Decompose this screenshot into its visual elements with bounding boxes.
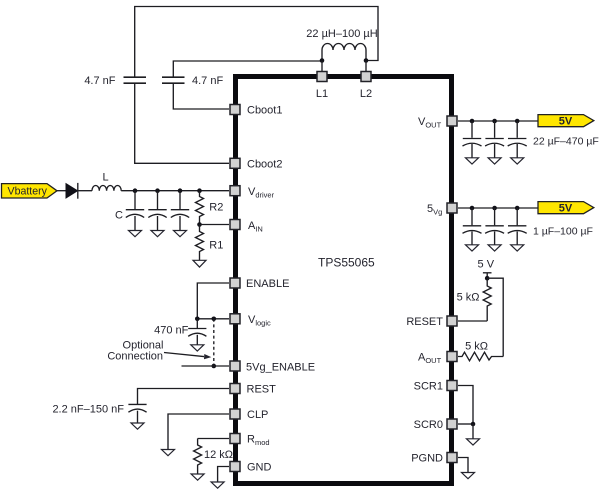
svg-text:R1: R1	[209, 240, 223, 252]
pin REST	[230, 384, 240, 394]
5V supply rail bar	[483, 272, 492, 274]
resistor R1	[196, 225, 204, 261]
svg-text:L2: L2	[360, 88, 372, 100]
ground (C bank 3)	[174, 231, 187, 237]
ground (SCR)	[467, 439, 480, 445]
node: 5Vg junction 1	[470, 206, 475, 211]
pin 5Vg	[447, 203, 457, 213]
wire: CLP pin to ground	[168, 414, 229, 450]
wire: ENABLE pin loop to Vlogic	[197, 283, 229, 319]
svg-text:REST: REST	[247, 384, 277, 396]
wire: junction to AIN pin	[200, 224, 230, 226]
node: SCR junction	[471, 422, 476, 427]
5V output flag (VOUT)	[538, 115, 594, 128]
svg-text:L: L	[102, 172, 108, 184]
svg-text:SCR0: SCR0	[414, 419, 443, 431]
wire: 4.7nF C1 top to L2 junction (top loop)	[135, 7, 378, 78]
ground (5Vg cap 3)	[511, 245, 524, 251]
ground (GND)	[211, 482, 224, 488]
node: Vlogic junction B	[212, 317, 217, 322]
wire: SCR junction to ground	[472, 424, 474, 439]
resistor 12k	[194, 439, 202, 475]
pin VOUT	[447, 116, 457, 126]
wire: 5Vg rail	[458, 207, 538, 209]
ground (VOUT cap 1)	[466, 158, 479, 164]
pin PGND	[447, 453, 457, 463]
wire: Vbattery to diode	[57, 190, 66, 192]
svg-text:GND: GND	[247, 462, 272, 474]
node: rail junction 3	[178, 188, 183, 193]
ground (470nF)	[191, 345, 204, 351]
capacitor 2.2nF-150nF	[128, 404, 146, 423]
svg-text:5 V: 5 V	[478, 259, 495, 271]
pin Cboot1	[230, 105, 240, 115]
wire: diode to inductor L	[79, 190, 93, 192]
capacitor VOUT bank 3	[508, 121, 527, 158]
resistor R2	[196, 191, 204, 225]
svg-text:5Vg_ENABLE: 5Vg_ENABLE	[246, 362, 315, 374]
node: rail junction R2 top	[197, 188, 202, 193]
ground (VOUT cap 2)	[488, 158, 501, 164]
node: Vlogic junction A	[195, 317, 200, 322]
svg-text:5 kΩ: 5 kΩ	[457, 292, 480, 304]
svg-text:470 nF: 470 nF	[154, 325, 189, 337]
node: L1 junction	[320, 58, 325, 63]
wire: REST pin to cap	[138, 389, 230, 405]
wire: 4.7nF C2 bottom to Cboot1 pin	[173, 83, 229, 109]
pin AIN	[230, 220, 240, 230]
svg-text:22 µH–100 µH: 22 µH–100 µH	[306, 28, 377, 40]
svg-text:R2: R2	[209, 202, 223, 214]
svg-text:4.7 nF: 4.7 nF	[192, 75, 223, 87]
capacitor 5Vg bank 2	[485, 208, 504, 245]
ground (5Vg cap 2)	[488, 245, 501, 251]
ground (C bank 2)	[151, 231, 164, 237]
wire: Vlogic pin wire	[197, 318, 229, 320]
wire: 4.7nF C1 bottom to Cboot2 pin	[135, 83, 229, 163]
wire: SCR1 to SCR0 junction	[458, 386, 473, 425]
node: R2/R1/AIN junction	[197, 222, 202, 227]
wire: L1 junction stub to pin	[321, 61, 323, 73]
svg-text:12 kΩ: 12 kΩ	[204, 449, 233, 461]
svg-text:TPS55065: TPS55065	[318, 256, 375, 270]
svg-text:Cboot2: Cboot2	[247, 159, 282, 171]
pin L2	[361, 72, 371, 82]
wire: L2 junction stub to pin	[365, 61, 367, 73]
capacitor VOUT bank 2	[485, 121, 504, 158]
node: VOUT junction 2	[492, 119, 497, 124]
svg-text:RESET: RESET	[406, 316, 443, 328]
ground (R1)	[193, 260, 206, 267]
wire: input rail to Vdriver pin	[121, 190, 229, 192]
wire: 5V bar to junction	[486, 273, 488, 278]
inductor L (input)	[92, 186, 121, 191]
wire: PGND to ground	[458, 458, 468, 473]
Vbattery input flag	[2, 184, 58, 198]
wire: Rmod pin to resistor	[198, 438, 229, 440]
pin SCR1	[447, 381, 457, 391]
ground (PGND)	[462, 473, 475, 479]
capacitor 5Vg bank 1	[463, 208, 482, 245]
svg-text:SCR1: SCR1	[414, 381, 443, 393]
node: L2 junction	[364, 58, 369, 63]
svg-text:C: C	[115, 210, 123, 222]
svg-text:ENABLE: ENABLE	[246, 278, 289, 290]
svg-text:5 kΩ: 5 kΩ	[465, 341, 488, 353]
node: 5Vg junction 2	[492, 206, 497, 211]
ground (REST cap)	[131, 423, 144, 429]
node: rail junction 2	[155, 188, 160, 193]
svg-text:2.2 nF–150 nF: 2.2 nF–150 nF	[52, 404, 124, 416]
resistor 5k (RESET pull-up)	[483, 278, 491, 321]
svg-text:L1: L1	[316, 88, 328, 100]
ground (12k)	[191, 474, 204, 480]
wire: 5V junction over to AOUT branch	[487, 278, 503, 356]
svg-text:CLP: CLP	[247, 409, 268, 421]
pin L1	[317, 72, 327, 82]
pin 5Vg_ENABLE	[230, 361, 240, 371]
svg-text:Cboot1: Cboot1	[247, 105, 282, 117]
svg-text:Connection: Connection	[107, 351, 163, 363]
ground (5Vg cap 1)	[466, 245, 479, 251]
wire: GND pin to ground	[218, 467, 229, 483]
node: 5V junction	[485, 276, 490, 281]
capacitor VOUT bank 1	[463, 121, 482, 158]
node: rail junction 1	[133, 188, 138, 193]
IC U1 TPS55065 body	[236, 77, 452, 484]
svg-text:1 µF–100 µF: 1 µF–100 µF	[533, 226, 593, 238]
capacitor C bank 3	[171, 191, 189, 231]
resistor 5k (AOUT series)	[458, 352, 503, 361]
capacitor 5Vg bank 3	[508, 208, 527, 245]
pin CLP	[230, 409, 240, 419]
svg-text:PGND: PGND	[411, 453, 443, 465]
ground (C bank 1)	[129, 231, 142, 237]
ground (VOUT cap 3)	[511, 158, 524, 164]
inductor L_ext 22uH-100uH between L1 and L2	[322, 44, 366, 61]
svg-text:5V: 5V	[559, 116, 573, 128]
annotation arrow to dashed wire	[164, 353, 211, 360]
pin Vdriver	[230, 186, 240, 196]
pin SCR0	[447, 419, 457, 429]
pin GND	[230, 462, 240, 472]
capacitor C bank 1	[126, 191, 144, 231]
svg-text:22 µF–470 µF: 22 µF–470 µF	[533, 136, 599, 148]
pin AOUT	[447, 352, 457, 362]
ground (CLP)	[162, 450, 175, 456]
pin RESET	[447, 316, 457, 326]
wire: 5Vg_ENABLE stub	[182, 365, 230, 367]
svg-text:5V: 5V	[559, 203, 573, 215]
pin Rmod	[230, 434, 240, 444]
capacitor C2 4.7nF plates	[162, 77, 185, 83]
capacitor C1 4.7nF plates	[124, 77, 147, 83]
node: VOUT junction 1	[470, 119, 475, 124]
svg-text:4.7 nF: 4.7 nF	[84, 75, 115, 87]
pin ENABLE	[230, 278, 240, 288]
note text Optional Connection	[107, 340, 163, 363]
wire: 5k bottom to RESET pin	[458, 320, 487, 322]
svg-text:Vbattery: Vbattery	[8, 186, 48, 198]
pin Vlogic	[230, 314, 240, 324]
diode D1	[66, 183, 78, 199]
node: 5Vg junction 3	[515, 206, 520, 211]
wire: 4.7nF C2 top to L1 junction	[173, 61, 322, 77]
capacitor 470 nF	[188, 319, 206, 345]
wire: dashed optional connection	[213, 319, 215, 366]
node: 5Vg_ENABLE junction	[212, 364, 217, 369]
5V output flag (5Vg)	[538, 202, 594, 215]
wire: SCR0 pin to junction	[458, 423, 473, 425]
wire: VOUT rail	[458, 120, 538, 122]
node: VOUT junction 3	[515, 119, 520, 124]
pin Cboot2	[230, 158, 240, 168]
capacitor C bank 2	[148, 191, 166, 231]
